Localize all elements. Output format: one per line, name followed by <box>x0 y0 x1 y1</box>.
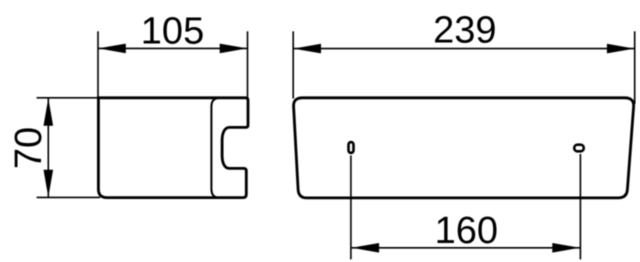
side view inner tangent edge <box>211 98 217 197</box>
svg-text:239: 239 <box>433 10 496 52</box>
svg-text:160: 160 <box>435 210 498 252</box>
svg-text:105: 105 <box>141 10 204 52</box>
dim 70 extension line bottom <box>37 196 100 198</box>
dim 105 extension line left <box>97 31 99 97</box>
left mounting hole (vertical slot) <box>349 142 354 153</box>
dim 105 extension line right <box>247 31 249 97</box>
svg-text:70: 70 <box>8 127 50 169</box>
dim 70 arrow up <box>44 98 54 126</box>
dim 160 extension line left <box>350 156 352 260</box>
dim 70 dimension line <box>47 98 49 197</box>
dim 70 extension line top <box>37 97 98 99</box>
right mounting hole (horizontal slot) <box>574 145 584 152</box>
dim 160 dimension line <box>351 247 580 249</box>
dim 105 arrow right <box>220 44 248 54</box>
dim 105 arrow left <box>98 44 126 54</box>
dim 239 extension line right <box>634 31 636 104</box>
dim 239 arrow right <box>607 44 635 54</box>
dim 105 dimension line <box>98 47 248 49</box>
dim 160 extension line right <box>579 154 581 259</box>
dim 239 arrow left <box>294 44 322 54</box>
dim 239 dimension line <box>293 48 635 50</box>
dim 160 arrow right <box>552 243 580 253</box>
dim 239 extension line left <box>292 31 294 98</box>
side view body outline <box>98 98 248 198</box>
dim 70 arrow down <box>44 170 54 198</box>
dim 160 arrow left <box>352 243 380 253</box>
front view body outline <box>294 98 634 198</box>
